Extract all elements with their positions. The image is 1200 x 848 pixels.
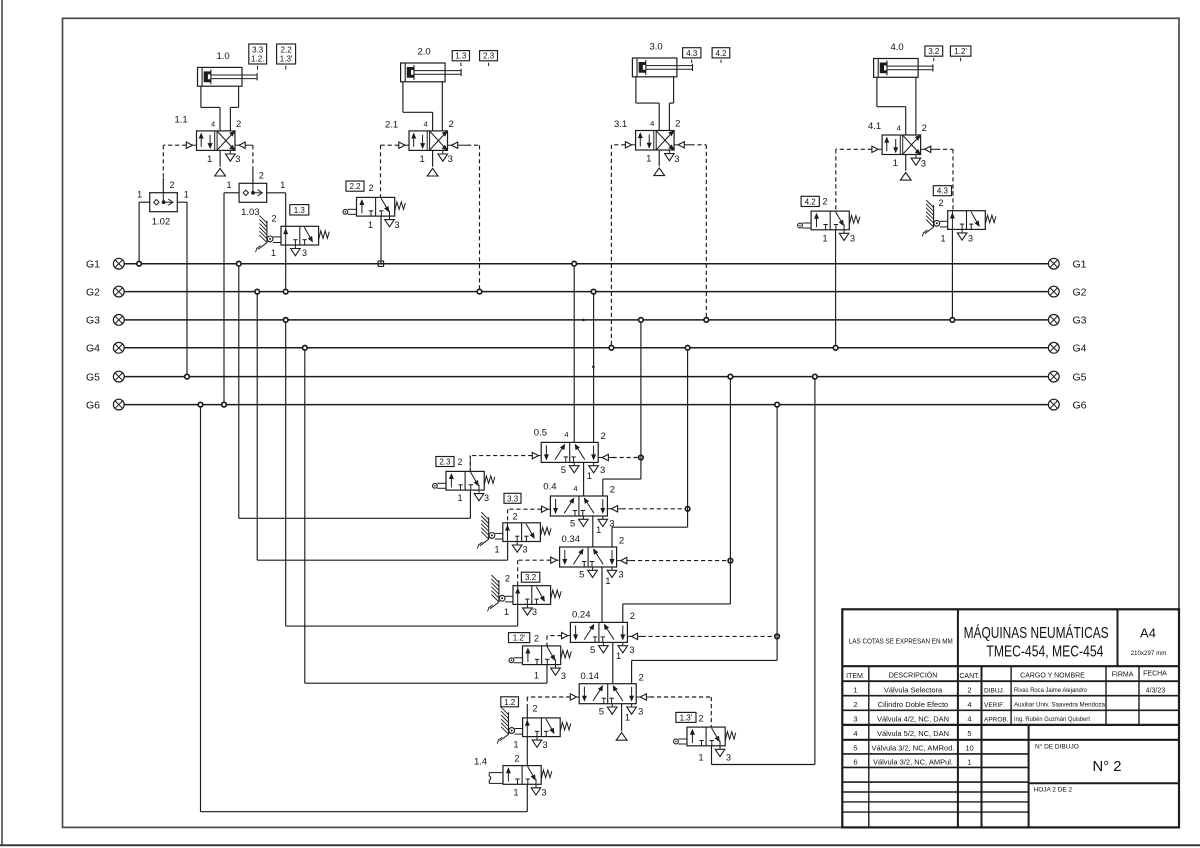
- svg-text:G5: G5: [1073, 371, 1087, 383]
- svg-text:1: 1: [823, 234, 828, 244]
- svg-text:3: 3: [542, 788, 547, 798]
- junction 0.4 pilot / 0.3 output: [685, 507, 690, 512]
- svg-text:1: 1: [616, 651, 621, 662]
- wire 1.03 left port to G6: [224, 193, 239, 405]
- svg-text:1: 1: [941, 234, 946, 244]
- valve 4.3 (3/2 NC roller, actuated): [922, 198, 996, 243]
- svg-text:1: 1: [207, 154, 212, 165]
- svg-text:1: 1: [504, 607, 509, 617]
- svg-text:4: 4: [967, 700, 971, 709]
- bus line G6: [124, 404, 1048, 406]
- valve 2.1 right pilot to G2: [448, 142, 480, 292]
- svg-text:1.4: 1.4: [474, 757, 487, 768]
- svg-text:1.1: 1.1: [175, 115, 188, 126]
- svg-text:1: 1: [271, 248, 276, 258]
- svg-text:2: 2: [513, 512, 518, 522]
- svg-text:4: 4: [424, 119, 428, 128]
- junction on G6 at 1.03: [222, 402, 227, 407]
- svg-text:CANT.: CANT.: [959, 673, 979, 680]
- svg-text:1.3': 1.3': [680, 713, 693, 722]
- bus G3 right terminator: [1048, 315, 1086, 327]
- svg-text:5: 5: [570, 519, 575, 530]
- valve 1.1 left pilot line to 1.02: [163, 142, 196, 193]
- valve 1.1 (4/2, double pilot): [175, 115, 242, 177]
- svg-text:Válvula 3/2, NC, AMPul.: Válvula 3/2, NC, AMPul.: [873, 758, 953, 767]
- svg-text:G6: G6: [1073, 399, 1087, 411]
- svg-text:4: 4: [211, 119, 215, 128]
- svg-text:2: 2: [449, 119, 454, 130]
- svg-text:6: 6: [853, 758, 857, 767]
- wire G3 drop to valve 3.2 port 1: [286, 320, 518, 626]
- cylinder 3.0 port tubes: [636, 77, 674, 131]
- junction 0.5 pilot / 0.4 output: [639, 455, 644, 460]
- junction on G1 at 0.5 port4: [572, 261, 577, 266]
- tag box 4.3 at cylinder 3.0: [683, 48, 701, 63]
- tag box 2.2/1.3' at cylinder 1.0: [277, 44, 296, 70]
- valve 1.3 (3/2 NC roller, actuated): [256, 214, 330, 259]
- valve 3.2 (3/2 NC roller, actuated): [488, 574, 562, 618]
- valve 0.1 left pilot from 1.2: [527, 694, 579, 718]
- svg-text:3: 3: [629, 645, 634, 656]
- valve 0.1 right pilot from 1.3': [636, 694, 711, 727]
- valve 3.1 left pilot to G4: [611, 142, 635, 348]
- junction on G2 drop: [255, 289, 260, 294]
- valve 4.1 right pilot to valve 4.3: [921, 146, 953, 211]
- svg-text:3: 3: [448, 154, 453, 165]
- valve 4.2 (3/2 NC pin, rest): [798, 197, 860, 244]
- valve 0.2 (5/2 cascade): [570, 610, 635, 663]
- svg-text:2.2: 2.2: [281, 46, 293, 55]
- wire valve 1.2 port 1 to valve 1.4 port 2: [526, 737, 528, 766]
- valve 3.1 (4/2, double pilot): [614, 119, 680, 176]
- tag box 4.2 at cylinder 3.0: [712, 48, 730, 63]
- valve 2.1 (4/2, double pilot): [385, 119, 454, 176]
- svg-text:1: 1: [893, 158, 898, 169]
- bus line G3: [124, 319, 1048, 321]
- svg-text:4: 4: [967, 715, 971, 724]
- svg-text:DIBUJ.: DIBUJ.: [984, 688, 1005, 695]
- net node speck on G3: [582, 319, 585, 322]
- junction on G4 drop: [303, 346, 308, 351]
- svg-text:1: 1: [420, 154, 425, 165]
- svg-text:3: 3: [853, 715, 857, 724]
- svg-text:1: 1: [514, 740, 519, 750]
- svg-text:G1: G1: [86, 259, 100, 271]
- valve 1.4 (3/2 NC manual, rest): [474, 754, 552, 798]
- cylinder 2.0 port tubes: [403, 82, 442, 131]
- junction on G3 at valve 3.1 pilot: [704, 318, 709, 323]
- svg-text:1: 1: [625, 713, 630, 724]
- svg-text:2: 2: [601, 431, 606, 442]
- svg-text:3: 3: [561, 671, 566, 681]
- svg-text:3.2: 3.2: [525, 573, 537, 582]
- svg-text:3: 3: [484, 493, 489, 503]
- bus G1 right terminator: [1048, 258, 1086, 270]
- valve 0.3 (5/2 cascade): [560, 534, 625, 587]
- valve 0.5 (5/2 cascade): [534, 428, 606, 483]
- svg-text:G1: G1: [1073, 259, 1087, 271]
- svg-text:1.3: 1.3: [455, 52, 467, 61]
- bus G6 left terminator: [86, 399, 124, 411]
- tag box 2.2: [346, 181, 364, 191]
- svg-text:3: 3: [674, 154, 679, 165]
- svg-text:3: 3: [543, 740, 548, 750]
- wire valve 4.3 port 1 to G3: [951, 229, 953, 320]
- tag box 1.3: [290, 205, 309, 215]
- cylinder 1.0 port tubes: [201, 86, 239, 131]
- wire valve 1.3 port 1 to G2: [285, 245, 287, 292]
- svg-text:FIRMA: FIRMA: [1112, 672, 1134, 679]
- svg-text:2: 2: [630, 611, 635, 622]
- svg-text:2: 2: [610, 485, 615, 496]
- wire valve 1.3' port 1 to G5: [712, 377, 815, 765]
- svg-text:3: 3: [395, 220, 400, 230]
- valve 3.1 right pilot to G3: [674, 142, 706, 320]
- svg-text:Válvula Selectora: Válvula Selectora: [884, 686, 943, 695]
- svg-text:Cilindro Doble Efecto: Cilindro Doble Efecto: [878, 700, 948, 709]
- wire 0.3 port1 to 0.2 port4: [601, 567, 603, 622]
- bus G3 left terminator: [86, 315, 124, 327]
- junction on G4 at 0.3 port2: [685, 346, 690, 351]
- wire valve 0.5 port 4 to G1: [573, 264, 575, 443]
- cylinder 3.0: [632, 42, 692, 77]
- svg-text:G2: G2: [1073, 286, 1087, 298]
- tag box 3.2: [521, 572, 539, 582]
- junction on G5 at 1.02: [185, 374, 190, 379]
- svg-text:2: 2: [939, 198, 944, 208]
- svg-text:2: 2: [675, 119, 680, 130]
- cylinder 2.0: [401, 47, 462, 82]
- svg-text:2: 2: [699, 714, 704, 724]
- bus G5 right terminator: [1048, 371, 1086, 383]
- bus G2 left terminator: [86, 286, 124, 298]
- svg-text:1: 1: [534, 671, 539, 681]
- svg-text:1: 1: [458, 493, 463, 503]
- bus G6 right terminator: [1048, 399, 1086, 411]
- bus line G5: [124, 376, 1048, 378]
- bus line G2: [124, 291, 1048, 293]
- wire valve 0.5 port 2 to G2: [593, 292, 595, 443]
- svg-text:2.3: 2.3: [439, 458, 451, 467]
- svg-text:2: 2: [922, 123, 927, 134]
- svg-text:4/3/23: 4/3/23: [1146, 688, 1166, 695]
- valve 0.4 right pilot from 0.3 output: [607, 506, 687, 512]
- svg-text:1.2: 1.2: [504, 698, 516, 707]
- svg-text:2: 2: [458, 457, 463, 467]
- svg-text:G3: G3: [86, 315, 100, 327]
- valve 2.2 (3/2 NC pin, rest): [343, 183, 405, 230]
- svg-text:3: 3: [726, 753, 731, 763]
- junction on G6 at 0.1 port2: [775, 402, 780, 407]
- junction on G2 at valve 2.1 pilot: [477, 289, 482, 294]
- shuttle valve 1.03: [227, 171, 286, 218]
- svg-text:1: 1: [967, 758, 971, 767]
- junction on G5 at 0.2 port2: [728, 374, 733, 379]
- svg-text:4.3: 4.3: [937, 187, 949, 196]
- svg-text:2: 2: [505, 574, 510, 584]
- cylinder 4.0: [874, 42, 933, 77]
- valve 0.2 right pilot from 0.1 output: [627, 633, 777, 639]
- svg-text:Ing. Rubén Guzmán Quisbert: Ing. Rubén Guzmán Quisbert: [1014, 716, 1090, 723]
- bus G1 left terminator: [86, 258, 124, 270]
- svg-text:3: 3: [618, 570, 623, 581]
- svg-text:G6: G6: [86, 399, 100, 411]
- cylinder 4.0 port tubes: [877, 77, 916, 135]
- bus G4 right terminator: [1048, 342, 1086, 354]
- valve 0.4 left pilot from 3.3: [508, 506, 551, 523]
- svg-text:FECHA: FECHA: [1143, 671, 1167, 678]
- svg-text:2: 2: [619, 536, 624, 547]
- svg-text:1: 1: [184, 189, 189, 199]
- svg-text:2.0: 2.0: [418, 47, 431, 58]
- svg-text:Válvula 4/2, NC, DAN: Válvula 4/2, NC, DAN: [877, 715, 949, 724]
- svg-text:ITEM.: ITEM.: [846, 673, 865, 680]
- svg-text:2: 2: [823, 197, 828, 207]
- junction on G2 at 0.5 port2: [591, 289, 596, 294]
- title block texts: [846, 625, 1167, 794]
- junction on G1 at 1.02: [137, 261, 142, 266]
- tag box 3.3/1.2 at cylinder 1.0: [249, 44, 267, 70]
- valve 2.1 left pilot to valve 2.2: [381, 142, 410, 197]
- valve 1.2 (3/2 NC roller, actuated): [497, 704, 571, 751]
- svg-text:3: 3: [523, 545, 528, 555]
- svg-text:1: 1: [137, 189, 142, 199]
- wire valve 4.2 port 1 to G4: [835, 230, 837, 348]
- svg-text:4.2: 4.2: [805, 197, 817, 206]
- bus line G1: [124, 263, 1048, 265]
- svg-text:G4: G4: [1073, 343, 1087, 355]
- svg-text:1: 1: [699, 753, 704, 763]
- tag box 1.2: [501, 697, 519, 707]
- svg-text:1.3': 1.3': [280, 55, 293, 64]
- svg-text:5: 5: [561, 465, 566, 476]
- junction on G6 drop: [198, 402, 203, 407]
- tag box 1.3 at cylinder 2.0: [452, 51, 469, 66]
- svg-text:4: 4: [650, 119, 654, 128]
- valve 2.3 (3/2 NC pin, rest): [433, 457, 495, 503]
- svg-text:5: 5: [579, 570, 584, 581]
- wire 1.03 right port to valve 1.3 port 2: [267, 193, 286, 227]
- svg-text:2: 2: [967, 686, 971, 695]
- svg-text:0.24: 0.24: [572, 610, 591, 621]
- svg-text:Auxiliar Univ. Saavedra Mendoz: Auxiliar Univ. Saavedra Mendoza: [1014, 702, 1106, 709]
- valve 0.1 (5/2 cascade): [579, 671, 644, 724]
- svg-text:1: 1: [646, 154, 651, 165]
- svg-text:5: 5: [967, 729, 971, 738]
- svg-text:CARGO Y NOMBRE: CARGO Y NOMBRE: [1020, 673, 1085, 680]
- wire G6 drop to valve 1.4 port 1: [201, 405, 528, 812]
- svg-text:Válvula 3/2, NC, AMRod.: Válvula 3/2, NC, AMRod.: [872, 743, 955, 752]
- svg-text:1: 1: [596, 525, 601, 536]
- svg-text:3: 3: [235, 154, 240, 165]
- svg-text:G2: G2: [86, 286, 100, 298]
- svg-text:4.2: 4.2: [715, 49, 727, 58]
- svg-text:0.34: 0.34: [562, 534, 581, 545]
- junction on G4 at valve 4.2: [833, 346, 838, 351]
- svg-text:1.2': 1.2': [513, 634, 526, 643]
- svg-text:4.1: 4.1: [868, 121, 881, 132]
- wire valve 0.4 port 2 to G3: [603, 320, 641, 496]
- svg-text:3: 3: [921, 158, 926, 169]
- bus G5 left terminator: [86, 371, 124, 383]
- svg-text:1.3: 1.3: [294, 206, 306, 215]
- svg-text:2.2: 2.2: [349, 182, 361, 191]
- svg-text:G3: G3: [1073, 315, 1087, 327]
- svg-text:HOJA 2 DE 2: HOJA 2 DE 2: [1034, 787, 1073, 794]
- svg-text:N° 2: N° 2: [1093, 759, 1122, 775]
- svg-text:LAS COTAS SE EXPRESAN EN MM: LAS COTAS SE EXPRESAN EN MM: [849, 639, 953, 646]
- svg-text:1: 1: [853, 686, 857, 695]
- svg-text:G5: G5: [86, 371, 100, 383]
- tag box 3.2 at cylinder 4.0: [925, 46, 943, 61]
- wire 0.5 port1 to 0.4 port4: [583, 462, 585, 496]
- tag box 2.3 at cylinder 2.0: [480, 51, 498, 66]
- bus line G4: [124, 347, 1048, 349]
- svg-text:2: 2: [369, 183, 374, 193]
- svg-text:4: 4: [897, 123, 901, 132]
- svg-text:2.3: 2.3: [483, 52, 495, 61]
- svg-text:A4: A4: [1140, 626, 1156, 641]
- svg-text:2: 2: [853, 700, 857, 709]
- tag box 1.3': [676, 712, 696, 722]
- bus G4 left terminator: [86, 342, 124, 354]
- svg-text:1: 1: [495, 545, 500, 555]
- svg-text:1: 1: [280, 180, 285, 190]
- svg-text:5: 5: [590, 645, 595, 656]
- wire valve 0.2 port 2 to G5: [623, 377, 731, 623]
- svg-text:210x297 mm: 210x297 mm: [1131, 650, 1167, 657]
- wire valve 2.3 port 2 up to 0.5 pilot: [469, 456, 471, 472]
- title block: [842, 609, 1179, 827]
- tag box 2.3: [436, 457, 454, 467]
- svg-text:3.3: 3.3: [507, 494, 519, 503]
- svg-text:4.3: 4.3: [686, 49, 698, 58]
- tag box 1.2': [509, 633, 530, 643]
- svg-text:N° DE DIBUJO: N° DE DIBUJO: [1035, 743, 1079, 751]
- svg-text:2: 2: [259, 171, 264, 181]
- valve 0.5 left pilot from 2.3: [470, 452, 541, 471]
- valve 0.2 left pilot from 1.2': [547, 632, 570, 646]
- shuttle valve 1.02: [137, 180, 189, 227]
- svg-text:2: 2: [272, 214, 277, 224]
- svg-text:1.0: 1.0: [217, 51, 230, 62]
- tag box 4.2: [801, 196, 819, 206]
- svg-text:4: 4: [573, 484, 577, 493]
- valve 1.1 right pilot line to 1.03: [235, 142, 253, 183]
- valve 0.3 right pilot from 0.2 output: [617, 557, 731, 563]
- svg-text:1: 1: [605, 576, 610, 587]
- junction on G2 at valve 1.3: [283, 289, 288, 294]
- valve 3.3 (3/2 NC roller, actuated): [477, 512, 551, 555]
- svg-text:3: 3: [532, 607, 537, 617]
- svg-text:2: 2: [515, 754, 520, 764]
- valve 1.3' (3/2 NC pin, rest): [674, 714, 736, 763]
- junction on G1 at valve 2.2: [378, 261, 383, 266]
- svg-text:MÁQUINAS NEUMÁTICAS: MÁQUINAS NEUMÁTICAS: [964, 625, 1109, 642]
- wire G2 drop to valve 3.3 port 1: [257, 292, 507, 561]
- junction on G4 at valve 3.1 pilot: [609, 346, 614, 351]
- svg-text:APROB.: APROB.: [984, 717, 1009, 724]
- junction on G3 drop: [283, 318, 288, 323]
- svg-text:1: 1: [368, 220, 373, 230]
- junction 0.3 pilot / 0.2 output: [728, 558, 733, 563]
- valve 0.5 right pilot from 0.4 output: [598, 454, 641, 460]
- wire valve 2.2 port 1 to G1: [380, 216, 382, 264]
- wire valve 0.3 port 2 to G4: [612, 348, 688, 547]
- svg-text:1.2': 1.2': [954, 47, 967, 56]
- tag box 4.3: [933, 186, 951, 196]
- svg-text:3.3: 3.3: [252, 46, 264, 55]
- svg-text:1: 1: [587, 471, 592, 482]
- svg-text:1.2.: 1.2.: [251, 55, 264, 64]
- svg-text:3.0: 3.0: [650, 42, 663, 53]
- svg-text:2: 2: [639, 672, 644, 683]
- wire 1.02 right port to G5: [177, 202, 187, 376]
- svg-text:5: 5: [599, 706, 604, 717]
- svg-text:3: 3: [302, 248, 307, 258]
- valve 1.2' (3/2 NC pin, rest): [509, 634, 571, 681]
- junction on G1 drop: [237, 261, 242, 266]
- wire 0.4 port1 to 0.3 port4: [592, 516, 594, 547]
- junction on G3 at valve 4.3: [950, 318, 955, 323]
- svg-text:1: 1: [514, 788, 519, 798]
- wire valve 0.1 port 2 to G6: [632, 405, 778, 684]
- svg-text:0.14: 0.14: [581, 671, 600, 682]
- svg-text:4: 4: [564, 430, 568, 439]
- cylinder 1.0: [198, 51, 258, 86]
- svg-text:3: 3: [968, 234, 973, 244]
- junction 0.2 pilot / 0.1 output: [775, 634, 780, 639]
- wire G4 drop to valve 1.2' port 1: [305, 348, 547, 683]
- svg-text:3.2: 3.2: [928, 47, 940, 56]
- tag box 3.3: [504, 493, 521, 503]
- svg-text:TMEC-454, MEC-454: TMEC-454, MEC-454: [986, 644, 1103, 661]
- svg-text:5: 5: [853, 743, 857, 752]
- tag box 1.2' at cylinder 4.0: [950, 46, 971, 61]
- valve 4.1 left pilot to valve 4.2: [836, 146, 882, 211]
- wire G1 drop to valve 2.3 port 1: [239, 264, 471, 519]
- svg-text:1.03: 1.03: [241, 207, 260, 218]
- svg-text:2: 2: [533, 704, 538, 714]
- svg-text:0.4: 0.4: [543, 482, 556, 493]
- svg-text:1.02: 1.02: [152, 216, 171, 227]
- valve 0.1 port 1 air supply: [616, 704, 627, 741]
- svg-text:0.5: 0.5: [534, 428, 547, 439]
- wire 0.2 port1 to 0.1 port4: [612, 642, 614, 683]
- svg-text:VERIF.: VERIF.: [984, 702, 1004, 709]
- svg-text:G4: G4: [86, 343, 100, 355]
- svg-text:DESCRIPCIÓN: DESCRIPCIÓN: [889, 671, 938, 680]
- svg-text:4.0: 4.0: [891, 42, 904, 53]
- svg-text:2.1: 2.1: [385, 120, 398, 131]
- junction on G3 at 0.4 port2: [639, 318, 644, 323]
- svg-text:2: 2: [170, 180, 175, 190]
- svg-text:2: 2: [534, 634, 539, 644]
- valve 0.3 left pilot from 3.2: [518, 557, 560, 586]
- net node speck near G5: [592, 366, 595, 369]
- junction on G5 at 1.3': [813, 374, 818, 379]
- svg-text:4: 4: [853, 729, 857, 738]
- valve 4.1 (4/2, double pilot): [868, 121, 927, 180]
- svg-text:Rivas Roca Jaime Alejandro: Rivas Roca Jaime Alejandro: [1014, 687, 1088, 694]
- svg-text:10: 10: [965, 743, 973, 752]
- svg-text:3: 3: [600, 465, 605, 476]
- wire 1.02 left port to G1: [139, 202, 150, 264]
- valve 0.4 (5/2 cascade): [543, 482, 615, 536]
- svg-text:3.1: 3.1: [614, 119, 627, 130]
- svg-text:Válvula 5/2, NC, DAN: Válvula 5/2, NC, DAN: [877, 729, 949, 738]
- svg-text:3: 3: [850, 234, 855, 244]
